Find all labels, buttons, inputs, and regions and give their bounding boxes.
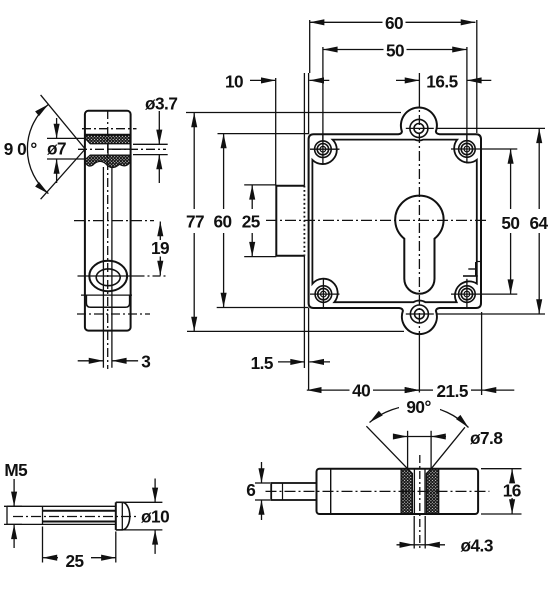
svg-text:ø7.8: ø7.8 [470,428,503,448]
svg-text:ø3.7: ø3.7 [145,94,177,114]
svg-text:1.5: 1.5 [251,353,274,373]
svg-text:25: 25 [65,551,84,571]
svg-text:90°: 90° [406,397,431,417]
svg-text:64: 64 [529,213,548,233]
svg-text:9 0 °: 9 0 ° [4,139,38,159]
svg-text:M5: M5 [4,460,28,480]
svg-text:60: 60 [385,13,403,33]
svg-text:16: 16 [503,481,521,501]
svg-text:25: 25 [242,212,261,232]
svg-text:ø7: ø7 [47,139,66,159]
svg-text:40: 40 [352,381,370,401]
svg-text:3: 3 [141,351,150,371]
svg-text:ø4.3: ø4.3 [460,536,492,556]
svg-text:50: 50 [386,41,404,61]
svg-text:50: 50 [501,213,519,233]
svg-text:6: 6 [246,480,255,500]
svg-text:16.5: 16.5 [426,72,458,92]
svg-text:60: 60 [213,212,231,232]
svg-text:10: 10 [225,72,243,92]
svg-text:ø10: ø10 [141,507,169,527]
svg-text:19: 19 [151,238,169,258]
svg-text:77: 77 [186,212,204,232]
svg-text:21.5: 21.5 [436,381,468,401]
